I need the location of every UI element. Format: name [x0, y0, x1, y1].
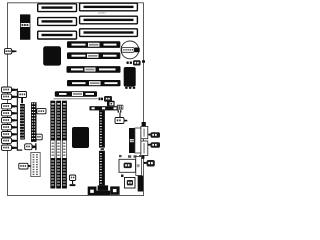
key icon	[70, 175, 76, 186]
ISA slot 2	[38, 18, 77, 26]
CPU slot bottom bracket right	[110, 186, 119, 194]
board outline	[8, 3, 144, 196]
edge icon 2	[2, 94, 18, 99]
left wire bus	[17, 89, 18, 151]
port icon B	[148, 142, 160, 147]
battery BT1	[121, 41, 140, 59]
wire hook bottom	[17, 150, 23, 151]
DIMM vertical socket S1	[50, 101, 55, 189]
power connector J1	[20, 14, 30, 39]
edge icon 1	[2, 87, 18, 92]
SIMM socket 2	[67, 52, 120, 59]
connector icon pair mid-left	[25, 143, 37, 150]
CPU slot bottom bracket left	[88, 187, 97, 196]
small label box right of slot top	[107, 101, 115, 107]
serial port box CN2	[141, 141, 148, 156]
port icon C	[144, 160, 155, 167]
tick row above keyboard connector	[119, 155, 142, 158]
blob on right edge	[142, 122, 146, 126]
connector icon below pin block	[115, 118, 127, 124]
ISA slot 1	[38, 4, 77, 12]
edge icon 9	[2, 145, 18, 150]
keyboard connector box	[119, 159, 136, 172]
edge icon 4	[2, 111, 18, 116]
edge icon 7	[2, 132, 18, 137]
PCI slot 2	[80, 16, 138, 24]
DIMM vertical socket S3	[62, 101, 67, 189]
edge icon 5	[2, 118, 18, 123]
ISA slot 3	[38, 31, 77, 39]
SIMM socket 1	[67, 41, 120, 48]
edge connector icon top (J2)	[5, 49, 17, 54]
svg-text:J4567: J4567	[98, 11, 107, 15]
white box beside regulator	[135, 128, 141, 153]
CPU slot bottom center	[97, 191, 111, 195]
edge icon 3	[2, 104, 18, 109]
jumper label JP1	[18, 92, 27, 104]
tick below CN2	[141, 155, 144, 159]
DIMM vertical socket S2	[56, 101, 61, 189]
pin header A	[20, 104, 25, 140]
plug icon right of DIMM B	[99, 96, 113, 102]
CPU chip U3	[72, 127, 89, 148]
port icon A	[148, 132, 160, 137]
connector icon below battery	[127, 60, 146, 65]
PCI slot 3	[80, 29, 138, 37]
voltage regulator block	[129, 128, 135, 153]
chip U1	[43, 46, 61, 65]
pin header B	[31, 102, 37, 142]
front panel header grid	[31, 153, 40, 177]
narrow box right of keyboard connector	[136, 157, 142, 176]
CPU slot column	[99, 110, 105, 185]
SIMM socket 4	[67, 80, 121, 86]
black block bottom right edge	[138, 176, 143, 192]
edge icon 8	[2, 138, 18, 143]
DIMM socket A	[55, 91, 97, 97]
SIMM socket 3	[67, 66, 121, 73]
edge icon 6	[2, 125, 18, 130]
jumper label JP2	[36, 109, 46, 114]
CPU slot top cap	[90, 106, 119, 110]
jumper label JP4	[19, 163, 31, 169]
PCI slot 1	[80, 3, 138, 11]
USB connector box	[125, 178, 136, 189]
CPU slot bottom cap	[98, 185, 109, 190]
pin block J9	[117, 105, 124, 118]
jumper label JP3	[35, 134, 42, 140]
DIMM socket B	[54, 98, 98, 99]
chip U2	[124, 67, 136, 89]
serial port box CN1	[141, 127, 148, 139]
